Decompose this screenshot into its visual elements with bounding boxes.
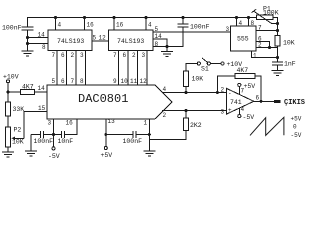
svg-text:1nF: 1nF (284, 61, 296, 68)
wire P1 to pin7 node (277, 24, 279, 36)
svg-text:7: 7 (52, 52, 56, 59)
svg-text:8: 8 (155, 41, 159, 48)
resistor R5 2K2 (185, 111, 187, 118)
svg-text:+5V: +5V (291, 116, 302, 123)
wire feedback loop (217, 76, 235, 93)
svg-text:7: 7 (71, 78, 75, 85)
svg-text:4: 4 (148, 22, 152, 29)
node 2K2 junction (185, 109, 188, 112)
resistor R1 10K right (275, 36, 280, 47)
ground for U2 (166, 47, 168, 52)
node output junction (260, 100, 263, 103)
wire +10V node (7, 83, 9, 102)
wire DAC pin3 (53, 119, 55, 135)
capacitor C6 100nF (106, 134, 133, 136)
ground under C4 (30, 135, 32, 152)
wire U3 pin1 to ground node (252, 51, 278, 58)
node +10V junction (7, 91, 10, 94)
node U2 pin8/14 junction (166, 45, 169, 48)
svg-text:2: 2 (132, 52, 136, 59)
svg-text:3: 3 (80, 52, 84, 59)
svg-text:14: 14 (38, 85, 46, 92)
svg-text:100nF: 100nF (2, 25, 22, 32)
svg-text:2K2: 2K2 (190, 122, 202, 129)
ground under C3 (272, 70, 284, 72)
node pin7 junction (276, 29, 279, 32)
svg-text:10nF: 10nF (58, 138, 74, 145)
op-amp U5 741 (227, 89, 254, 115)
wire U3 pin4 from rail (236, 18, 238, 27)
potentiometer P1 100K (256, 17, 258, 19)
svg-text:6: 6 (61, 52, 65, 59)
svg-text:1: 1 (253, 53, 257, 60)
node rail junction dots (54, 16, 250, 19)
wire DAC pin14 from R3 (35, 91, 48, 93)
svg-text:3: 3 (226, 26, 230, 33)
wire +5V terminal (105, 135, 107, 147)
svg-text:-5V: -5V (291, 132, 302, 139)
node chip1 pins 14/8 junctions (26, 36, 29, 45)
svg-text:14: 14 (38, 32, 46, 39)
resistor R3 4K7 (8, 91, 21, 93)
svg-text:+10V: +10V (3, 74, 19, 81)
wire U2 pin16 from rail (113, 18, 115, 31)
svg-text:74LS193: 74LS193 (57, 38, 84, 45)
svg-text:15: 15 (38, 105, 46, 112)
svg-text:-5V: -5V (243, 114, 255, 121)
svg-text:8: 8 (80, 78, 84, 85)
wire DAC pin2 row (162, 110, 227, 112)
wire U1 outputs to DAC (56, 51, 58, 86)
svg-text:6: 6 (123, 52, 127, 59)
node P1 wiper junction (276, 22, 279, 25)
svg-text:100nF: 100nF (190, 24, 210, 31)
wire U2 pin4 from rail (145, 18, 147, 31)
wire U5 output pin6 (254, 100, 274, 102)
wire DAC pin4 row (162, 92, 227, 94)
svg-text:+5V: +5V (244, 83, 256, 90)
svg-text:16: 16 (87, 22, 95, 29)
wire U3 pin7 (256, 30, 278, 32)
svg-text:555: 555 (237, 36, 249, 43)
svg-text:10: 10 (121, 78, 129, 85)
P2 wiper (14, 137, 25, 139)
capacitor C3 1nF (272, 61, 283, 63)
svg-text:10K: 10K (192, 76, 204, 83)
IC U2 74LS193 (109, 30, 154, 51)
svg-text:7: 7 (258, 25, 262, 32)
svg-text:12: 12 (140, 78, 148, 85)
wire U2 pin14 to ground (153, 39, 167, 47)
wire U2 outputs to DAC (118, 51, 120, 86)
svg-text:4: 4 (58, 22, 62, 29)
svg-text:0: 0 (293, 124, 297, 131)
svg-text:4: 4 (163, 86, 167, 93)
svg-text:+: + (228, 107, 232, 114)
svg-text:13: 13 (108, 118, 116, 125)
node pin1 junction (276, 56, 279, 59)
svg-text:10K: 10K (283, 40, 295, 47)
svg-text:3: 3 (142, 52, 146, 59)
sawtooth waveform symbol (250, 117, 284, 135)
output terminal bar (274, 100, 281, 103)
P1 wiper arrow (253, 11, 271, 24)
svg-text:5: 5 (93, 35, 97, 42)
capacitor C5 10nF (54, 134, 62, 136)
svg-text:+5V: +5V (101, 152, 113, 159)
svg-text:14: 14 (155, 33, 163, 40)
svg-text:9: 9 (113, 78, 117, 85)
node pin1 junction (148, 133, 151, 136)
node pin2/6 junction (268, 46, 271, 49)
svg-text:100nF: 100nF (123, 138, 143, 145)
svg-text:-: - (228, 90, 232, 97)
node pin13 junction (104, 133, 107, 136)
wire DAC pin13 (105, 119, 107, 135)
svg-text:10K: 10K (12, 139, 24, 146)
svg-text:7: 7 (113, 52, 117, 59)
wire U2 pin8 to ground (153, 46, 167, 48)
svg-text:8: 8 (251, 20, 255, 27)
svg-text:4K7: 4K7 (22, 84, 34, 91)
wire top supply rail (27, 17, 257, 19)
IC U3 555 (231, 26, 257, 51)
wire DAC pin1 (148, 119, 150, 135)
svg-text:16: 16 (66, 120, 74, 127)
svg-text:-5V: -5V (48, 153, 60, 160)
svg-text:2: 2 (71, 52, 75, 59)
wire U5 pin4 -5V (238, 108, 240, 114)
svg-text:74LS193: 74LS193 (117, 38, 144, 45)
svg-text:4K7: 4K7 (237, 67, 249, 74)
wire -5V terminal (53, 135, 55, 147)
svg-text:12: 12 (99, 35, 107, 42)
svg-text:DAC0801: DAC0801 (78, 92, 128, 106)
svg-text:6: 6 (61, 78, 65, 85)
node R2/pin4 junction (185, 91, 188, 94)
svg-text:4: 4 (239, 20, 243, 27)
wire U1 pin5 to U2 pin12 (92, 40, 109, 42)
svg-text:2: 2 (221, 87, 225, 94)
svg-text:16: 16 (116, 22, 124, 29)
wire S1 to R2 10K (186, 64, 197, 72)
capacitor C1 100nF top-left (27, 18, 29, 28)
svg-text:3: 3 (221, 109, 225, 116)
svg-text:11: 11 (130, 78, 138, 85)
wire C5 to DAC pin16 (65, 119, 78, 135)
IC U1 74LS193 (48, 30, 92, 51)
svg-text:33K: 33K (13, 106, 25, 113)
wire U1 pin4 from rail (55, 18, 57, 31)
wire chip1 pin8 (28, 43, 49, 45)
svg-text:5: 5 (52, 78, 56, 85)
svg-text:6: 6 (256, 95, 260, 102)
svg-text:ÇIKIS: ÇIKIS (284, 99, 305, 107)
svg-text:2: 2 (163, 112, 167, 119)
ground under C1 (22, 50, 34, 52)
wire U1 pin16 from rail (84, 18, 86, 31)
wire U2 pin5 clock from 555 pin3 (153, 31, 231, 33)
switch S1 (197, 62, 200, 65)
svg-text:S1: S1 (201, 66, 209, 73)
svg-text:P2: P2 (14, 127, 22, 134)
capacitor C4 100nF (31, 134, 41, 136)
wire U3 pin2 (256, 47, 278, 49)
ground under pin1 (148, 135, 150, 152)
svg-text:741: 741 (230, 99, 242, 106)
IC U4 DAC0801 (47, 85, 172, 119)
ground under P2 (7, 147, 9, 152)
svg-text:4: 4 (241, 106, 245, 113)
wire U5 pin7 +5V (238, 87, 240, 95)
svg-text:2: 2 (258, 42, 262, 49)
wire U3 pin8 from rail (248, 18, 250, 27)
svg-text:8: 8 (42, 44, 46, 51)
svg-text:100nF: 100nF (34, 138, 54, 145)
resistor R6 4K7 feedback (235, 74, 255, 79)
node feedback junction (216, 91, 219, 94)
svg-text:1: 1 (144, 120, 148, 127)
capacitor C2 100nF mid (182, 18, 184, 25)
wire U3 pin6 (256, 42, 270, 48)
resistor R2 10K (DAC pin4 pull-up) (184, 71, 189, 87)
node pin3 junction (52, 133, 55, 136)
svg-text:5: 5 (155, 26, 159, 33)
svg-text:100K: 100K (263, 10, 279, 17)
wire P2 wiper to DAC pin15 (24, 112, 47, 139)
potentiometer P2 10K (6, 127, 11, 147)
svg-text:3: 3 (48, 120, 52, 127)
resistor R4 33K (6, 102, 11, 116)
wire chip1 pin14 (28, 37, 49, 39)
